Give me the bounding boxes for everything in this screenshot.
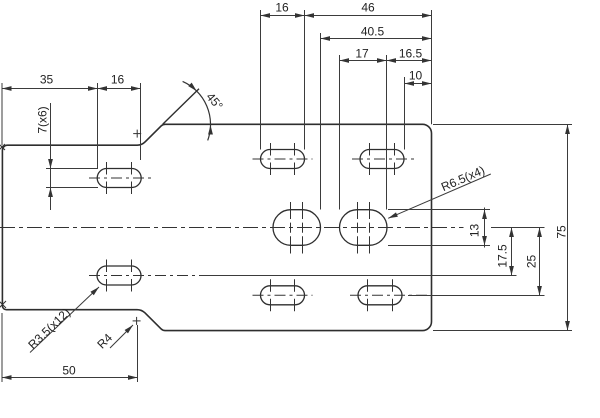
slot bottom-middle [261, 286, 305, 305]
svg-text:R6.5(x4): R6.5(x4) [439, 163, 487, 194]
svg-text:7(x6): 7(x6) [36, 106, 50, 133]
dimension 40.5 [321, 38, 432, 40]
part outline [2, 124, 431, 330]
svg-text:R3.5(x12): R3.5(x12) [25, 305, 73, 352]
slot upper-left [97, 169, 141, 188]
plus mark top bend center [133, 130, 141, 138]
dimension 16 top and 46 top : line [261, 15, 432, 17]
svg-text:R4: R4 [94, 331, 115, 352]
svg-text:45°: 45° [203, 90, 226, 113]
center ticks slot lower-left [107, 260, 132, 292]
x mark bottom-left corner [0, 301, 6, 308]
dimension 75 [567, 125, 569, 331]
hole right obround [340, 210, 388, 246]
centerline slots bottom row [253, 294, 313, 296]
centerline slots top row [253, 158, 313, 160]
center ticks hole left [291, 202, 303, 254]
dimension 17 and 16.5 [340, 60, 432, 62]
svg-text:46: 46 [361, 1, 375, 15]
slot bottom-right [358, 286, 402, 305]
slot top-middle [261, 150, 305, 169]
leader R6.5(x4) [388, 174, 491, 218]
svg-text:10: 10 [409, 69, 423, 83]
center ticks slot top-right [370, 143, 395, 175]
svg-text:40.5: 40.5 [361, 25, 385, 39]
leader R3.5(x12) [30, 287, 99, 353]
slot top-right [360, 150, 404, 169]
svg-text:13: 13 [468, 224, 482, 238]
45 degree angle arc [183, 81, 211, 140]
extension lines left dims 35/16 [2, 83, 141, 169]
svg-text:17.5: 17.5 [496, 244, 510, 268]
slot lower-left [97, 266, 141, 285]
center ticks hole right [358, 202, 370, 254]
x mark top-left corner [0, 144, 5, 150]
dimension 17.5 [511, 228, 513, 276]
extension lines right dims [200, 125, 572, 331]
svg-text:16.5: 16.5 [399, 47, 423, 61]
leader R4 [110, 325, 133, 348]
svg-text:25: 25 [525, 255, 539, 269]
plus mark bottom bend center [133, 317, 141, 325]
centerline slot upper-left [89, 177, 151, 179]
dimension 13 [484, 208, 486, 248]
svg-text:16: 16 [275, 1, 289, 15]
dimension 25 [539, 228, 541, 296]
dimension 7(x6) [46, 168, 98, 170]
hole left obround [273, 210, 321, 246]
center ticks slot upper-left [107, 162, 132, 194]
center ticks slot bottom-right [368, 279, 393, 311]
svg-text:50: 50 [62, 364, 76, 378]
dimension 35 and 16 left [2, 88, 141, 90]
center ticks slot bottom-middle [271, 279, 295, 311]
centerline slot lower-left [89, 275, 200, 277]
extension lines top dims [261, 10, 432, 210]
dimension 50 bottom [2, 313, 138, 382]
center ticks slot top-middle [271, 143, 295, 175]
dimension 10 [405, 83, 432, 85]
svg-text:75: 75 [555, 225, 569, 239]
svg-text:35: 35 [40, 73, 54, 87]
45 degree construction line [163, 89, 199, 125]
main horizontal centerline [0, 227, 464, 229]
svg-text:17: 17 [355, 47, 369, 61]
svg-text:16: 16 [111, 73, 125, 87]
